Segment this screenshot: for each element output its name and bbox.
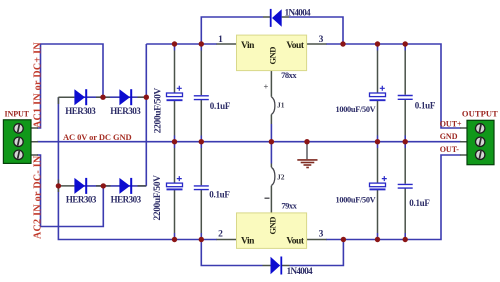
svg-text:1: 1 — [218, 35, 223, 45]
svg-text:GND: GND — [267, 47, 277, 65]
svg-text:HER303: HER303 — [65, 106, 96, 116]
svg-text:78xx: 78xx — [281, 70, 297, 80]
svg-text:INPUT: INPUT — [5, 110, 30, 119]
svg-text:J1: J1 — [277, 101, 285, 110]
svg-text:1N4004: 1N4004 — [287, 266, 313, 276]
svg-text:2200uF/50V: 2200uF/50V — [153, 175, 163, 221]
svg-text:3: 3 — [319, 229, 324, 239]
svg-text:79xx: 79xx — [281, 200, 297, 210]
svg-text:Vin: Vin — [241, 41, 255, 51]
svg-text:1N4004: 1N4004 — [285, 8, 311, 18]
svg-text:2: 2 — [218, 229, 223, 239]
svg-text:1000uF/50V: 1000uF/50V — [336, 105, 376, 114]
svg-text:Vin: Vin — [241, 236, 255, 246]
svg-text:2200uF/50V: 2200uF/50V — [154, 88, 164, 134]
svg-text:J2: J2 — [277, 172, 285, 181]
svg-text:3: 3 — [319, 35, 324, 45]
svg-text:1000uF/50V: 1000uF/50V — [336, 195, 376, 204]
svg-text:OUT-: OUT- — [440, 145, 460, 154]
svg-text:HER303: HER303 — [111, 194, 142, 204]
svg-text:GND: GND — [440, 132, 458, 141]
svg-text:GND: GND — [267, 217, 277, 235]
svg-text:+: + — [264, 81, 269, 91]
svg-text:HER303: HER303 — [66, 194, 97, 204]
svg-text:AC1 IN or DC+ IN: AC1 IN or DC+ IN — [33, 42, 44, 128]
svg-text:OUT+: OUT+ — [440, 119, 462, 128]
svg-text:0.1uF: 0.1uF — [210, 101, 231, 111]
svg-text:AC2 IN or DC- IN: AC2 IN or DC- IN — [33, 155, 44, 239]
svg-text:OUTPUT: OUTPUT — [462, 109, 498, 119]
svg-text:AC 0V or DC GND: AC 0V or DC GND — [63, 132, 132, 142]
svg-text:Vout: Vout — [286, 236, 305, 246]
svg-text:0.1uF: 0.1uF — [415, 100, 436, 110]
svg-text:0.1uF: 0.1uF — [209, 189, 230, 199]
svg-text:0.1uF: 0.1uF — [409, 198, 430, 208]
svg-text:Vout: Vout — [286, 41, 305, 51]
svg-text:HER303: HER303 — [110, 106, 141, 116]
